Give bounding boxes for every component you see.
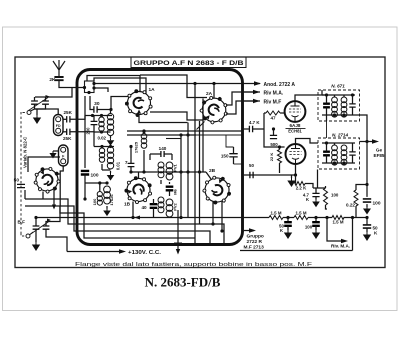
svg-text:Flange viste dal lato fastiera: Flange viste dal lato fastiera, supporto…	[75, 262, 313, 268]
svg-text:100: 100	[373, 200, 381, 206]
svg-text:100: 100	[91, 173, 99, 179]
svg-text:B.F: B.F	[18, 220, 26, 225]
wire y81 to coil 1A	[94, 78, 146, 94]
svg-text:0.02: 0.02	[97, 135, 106, 140]
capacitor 2K	[54, 77, 63, 80]
arrow Gruppo 2722R	[244, 230, 249, 232]
svg-text:2A: 2A	[206, 91, 213, 97]
vertical 2A bottom	[202, 120, 204, 172]
svg-text:Variab. N 822-C: Variab. N 822-C	[23, 137, 28, 168]
dashed variab section line	[20, 112, 22, 233]
N2714 capacitor right	[349, 152, 355, 155]
wire flange-left connections	[28, 157, 60, 172]
grounds 17626	[106, 206, 108, 209]
N671 top wire	[322, 94, 355, 96]
svg-text:17626: 17626	[109, 194, 114, 206]
resistor 47	[263, 113, 265, 129]
+130V arrow	[67, 251, 119, 253]
svg-text:PV1: PV1	[173, 163, 178, 171]
svg-text:100: 100	[331, 193, 339, 198]
arrow left on bus	[134, 216, 140, 220]
title box GRUPPO A.F	[131, 57, 246, 68]
wire FD top	[35, 109, 58, 115]
svg-text:Riv M.F: Riv M.F	[264, 99, 282, 105]
wire y83.5 long to Anod arrow	[94, 83, 196, 85]
svg-text:K: K	[374, 231, 378, 236]
padder F	[59, 145, 69, 166]
wire y75 to coil 1A top	[87, 76, 140, 93]
wire 100cap to 17626 tops	[85, 182, 107, 184]
staircase row B	[25, 206, 210, 243]
row stubs 2B bottom	[212, 201, 214, 224]
vertical long x181	[180, 135, 182, 218]
svg-text:2722 R: 2722 R	[247, 239, 263, 245]
ground T1	[110, 136, 112, 138]
wire y75 link to 2A	[140, 75, 207, 98]
svg-text:N. 2714: N. 2714	[332, 132, 349, 137]
svg-text:Anod. 2722 A: Anod. 2722 A	[264, 82, 296, 88]
svg-text:1.5 M: 1.5 M	[333, 220, 344, 225]
N2714 bottom wire	[322, 162, 355, 164]
wire trimmer bottoms	[35, 229, 37, 242]
resistor 100 right	[324, 188, 328, 205]
N2714 top wire	[322, 142, 355, 144]
capacitor 50K	[363, 225, 371, 228]
N2714 secondary coil	[341, 145, 347, 151]
input terminal box	[85, 81, 95, 93]
svg-text:F: F	[62, 155, 65, 159]
capacitor 25K lower	[67, 129, 70, 135]
svg-text:100: 100	[305, 225, 313, 230]
wire mesh stub y138	[166, 138, 181, 140]
bus +AVC row y217.5	[36, 217, 269, 219]
heptode ECH81 lower	[286, 144, 306, 164]
svg-text:40: 40	[141, 205, 147, 210]
wire 1B bottom to bus	[132, 202, 134, 218]
resistor 22K	[278, 150, 282, 164]
ground cathode	[291, 175, 293, 178]
wire T2 bottoms + ground	[101, 164, 103, 170]
svg-text:2.2 K: 2.2 K	[296, 185, 307, 190]
svg-text:Riv. M.A.: Riv. M.A.	[331, 244, 350, 249]
wire 2A pin diagonal	[197, 122, 205, 130]
resistor 1.5M mid	[294, 216, 308, 220]
svg-text:M.F 2713: M.F 2713	[244, 245, 265, 251]
terminal circle	[27, 111, 31, 115]
ground bottom-left	[35, 242, 37, 245]
vertical AVC feed x367	[366, 142, 368, 185]
svg-text:FD: FD	[56, 124, 61, 128]
svg-text:Riv M.A.: Riv M.A.	[264, 90, 284, 96]
svg-text:2K: 2K	[49, 77, 56, 83]
N671 capacitor right	[349, 104, 355, 107]
transformer PV1	[158, 162, 164, 168]
capacitor 500	[270, 135, 277, 138]
wire N2714 down to AVC net	[317, 170, 319, 189]
svg-text:150: 150	[221, 153, 229, 158]
svg-text:200: 200	[86, 127, 91, 135]
wire 1A to 2A mesh	[150, 99, 203, 121]
antenna	[53, 60, 65, 76]
wire left column down	[84, 96, 86, 116]
return wire y250.5	[240, 250, 353, 252]
wire mesh to shield right	[196, 134, 242, 136]
wire 2A top to bus y83	[213, 84, 215, 99]
staircase row C	[60, 206, 195, 238]
svg-text:2B: 2B	[209, 168, 216, 174]
osc transformer T1 with cap 200	[85, 115, 112, 117]
loop to Riv M.A. arrow	[325, 216, 328, 219]
label separator	[286, 128, 306, 130]
capacitor 100 right	[366, 185, 368, 197]
drawing frame border	[15, 57, 385, 268]
resistor 1.5M right	[332, 216, 344, 220]
transformer PV2	[158, 197, 164, 203]
svg-text:50: 50	[14, 178, 20, 184]
arrow Riv M.A.	[242, 91, 253, 93]
svg-text:17625: 17625	[134, 141, 139, 153]
svg-text:Gruppo: Gruppo	[247, 233, 264, 239]
svg-text:+130V. C.C.: +130V. C.C.	[128, 250, 162, 256]
wire 1B top stub	[138, 172, 140, 178]
svg-text:1B: 1B	[124, 202, 131, 208]
ground below trimmer	[36, 109, 38, 115]
svg-text:K: K	[306, 197, 310, 202]
trimmer arrow	[30, 221, 50, 235]
svg-text:30: 30	[94, 101, 100, 107]
cathode row y175	[244, 174, 296, 176]
wire N671 out to right	[355, 115, 367, 142]
N671 bottom wire	[322, 114, 355, 116]
arrow out to EF85	[360, 141, 373, 143]
wire tube1 top to IF transformer	[295, 95, 327, 101]
N2714 primary coil	[332, 145, 338, 151]
wire trimmer row	[35, 88, 72, 98]
coil flange oscillator left	[30, 162, 65, 197]
svg-text:M6: M6	[173, 188, 178, 194]
RF group shield (thick rounded box)	[77, 70, 243, 245]
wire trimmer tops to bus	[35, 218, 37, 227]
resistor 1.5M left	[269, 216, 283, 220]
svg-text:47: 47	[270, 116, 276, 121]
svg-text:6AJ8: 6AJ8	[290, 123, 301, 128]
svg-text:EF85: EF85	[374, 153, 385, 158]
svg-text:Ge: Ge	[376, 147, 383, 152]
svg-text:N. 2683-FD/B: N. 2683-FD/B	[145, 275, 221, 290]
staircase row A	[25, 199, 224, 243]
triode 6AJ8 upper	[285, 101, 306, 122]
capacitor 100 mid	[314, 216, 317, 219]
svg-text:0.22: 0.22	[346, 203, 355, 208]
svg-text:500: 500	[270, 142, 278, 147]
arrow to bus	[366, 204, 368, 207]
row y172 mid	[131, 171, 206, 173]
svg-text:25K: 25K	[63, 136, 72, 141]
wire T1 bottoms	[94, 132, 102, 133]
N671 black capacitor left	[323, 104, 330, 108]
N2714 black capacitor left	[323, 152, 330, 156]
svg-text:GRUPPO A.F N 2683 - F D/B: GRUPPO A.F N 2683 - F D/B	[134, 61, 245, 67]
N671 primary coil	[332, 97, 338, 103]
wire tube2 top into N2714	[296, 139, 319, 144]
trimmer arrow	[29, 98, 49, 111]
svg-text:1.5 M: 1.5 M	[296, 211, 307, 216]
padder FD	[54, 115, 64, 136]
svg-text:K: K	[280, 228, 284, 233]
osc transformer T2	[94, 146, 114, 148]
svg-text:4.7 K: 4.7 K	[249, 120, 260, 125]
svg-text:ECH81: ECH81	[288, 129, 302, 134]
coil flange 2A	[194, 91, 232, 129]
svg-text:100: 100	[92, 198, 97, 205]
coil flange 1A	[125, 90, 152, 117]
wire antenna to input box	[59, 80, 84, 87]
arrow Anod 2722 A	[254, 81, 261, 85]
ground left of F	[53, 150, 59, 152]
IF transformer N.671 dashed box	[318, 90, 360, 121]
vertical long x199.5	[199, 121, 201, 224]
arrow Riv M.F	[242, 100, 253, 102]
svg-text:1A: 1A	[149, 87, 156, 93]
wire F bottom down	[60, 166, 63, 206]
svg-text:7: 7	[125, 160, 128, 166]
capacitor 50K mid	[286, 216, 289, 219]
svg-text:PV2: PV2	[173, 202, 178, 210]
vertical long x195	[194, 84, 196, 244]
wire to +130V line	[46, 229, 67, 251]
N671 secondary coil	[341, 97, 347, 103]
IF transformer N.2714 dashed box	[318, 138, 360, 169]
svg-text:22 K: 22 K	[269, 153, 274, 162]
coil flange 2B	[200, 172, 235, 208]
dashed elbow to terminal	[20, 233, 22, 236]
capacitor 100 left (black)	[81, 171, 89, 175]
vertical x178 with down arrow	[177, 210, 179, 251]
svg-text:1.5 M: 1.5 M	[271, 211, 282, 216]
ground 50K	[366, 228, 368, 232]
wire 2A right pins	[226, 92, 260, 105]
wire N671 down to N2714	[321, 90, 323, 95]
resistor 2.2K	[293, 182, 305, 186]
resistor 0.22	[356, 185, 367, 191]
svg-text:25K: 25K	[64, 110, 73, 115]
black capacitor M6	[166, 187, 174, 191]
svg-text:140: 140	[159, 146, 167, 151]
trimmer capacitor pair (variable)	[31, 101, 38, 104]
wire down to T2	[84, 116, 86, 169]
svg-text:50: 50	[249, 163, 254, 168]
bottom trimmer pair (variable)	[33, 226, 40, 229]
vertical long x188	[187, 123, 189, 218]
svg-text:0.01: 0.01	[116, 161, 121, 170]
svg-text:N. 671: N. 671	[331, 83, 345, 88]
coil flange 1B	[123, 174, 154, 205]
